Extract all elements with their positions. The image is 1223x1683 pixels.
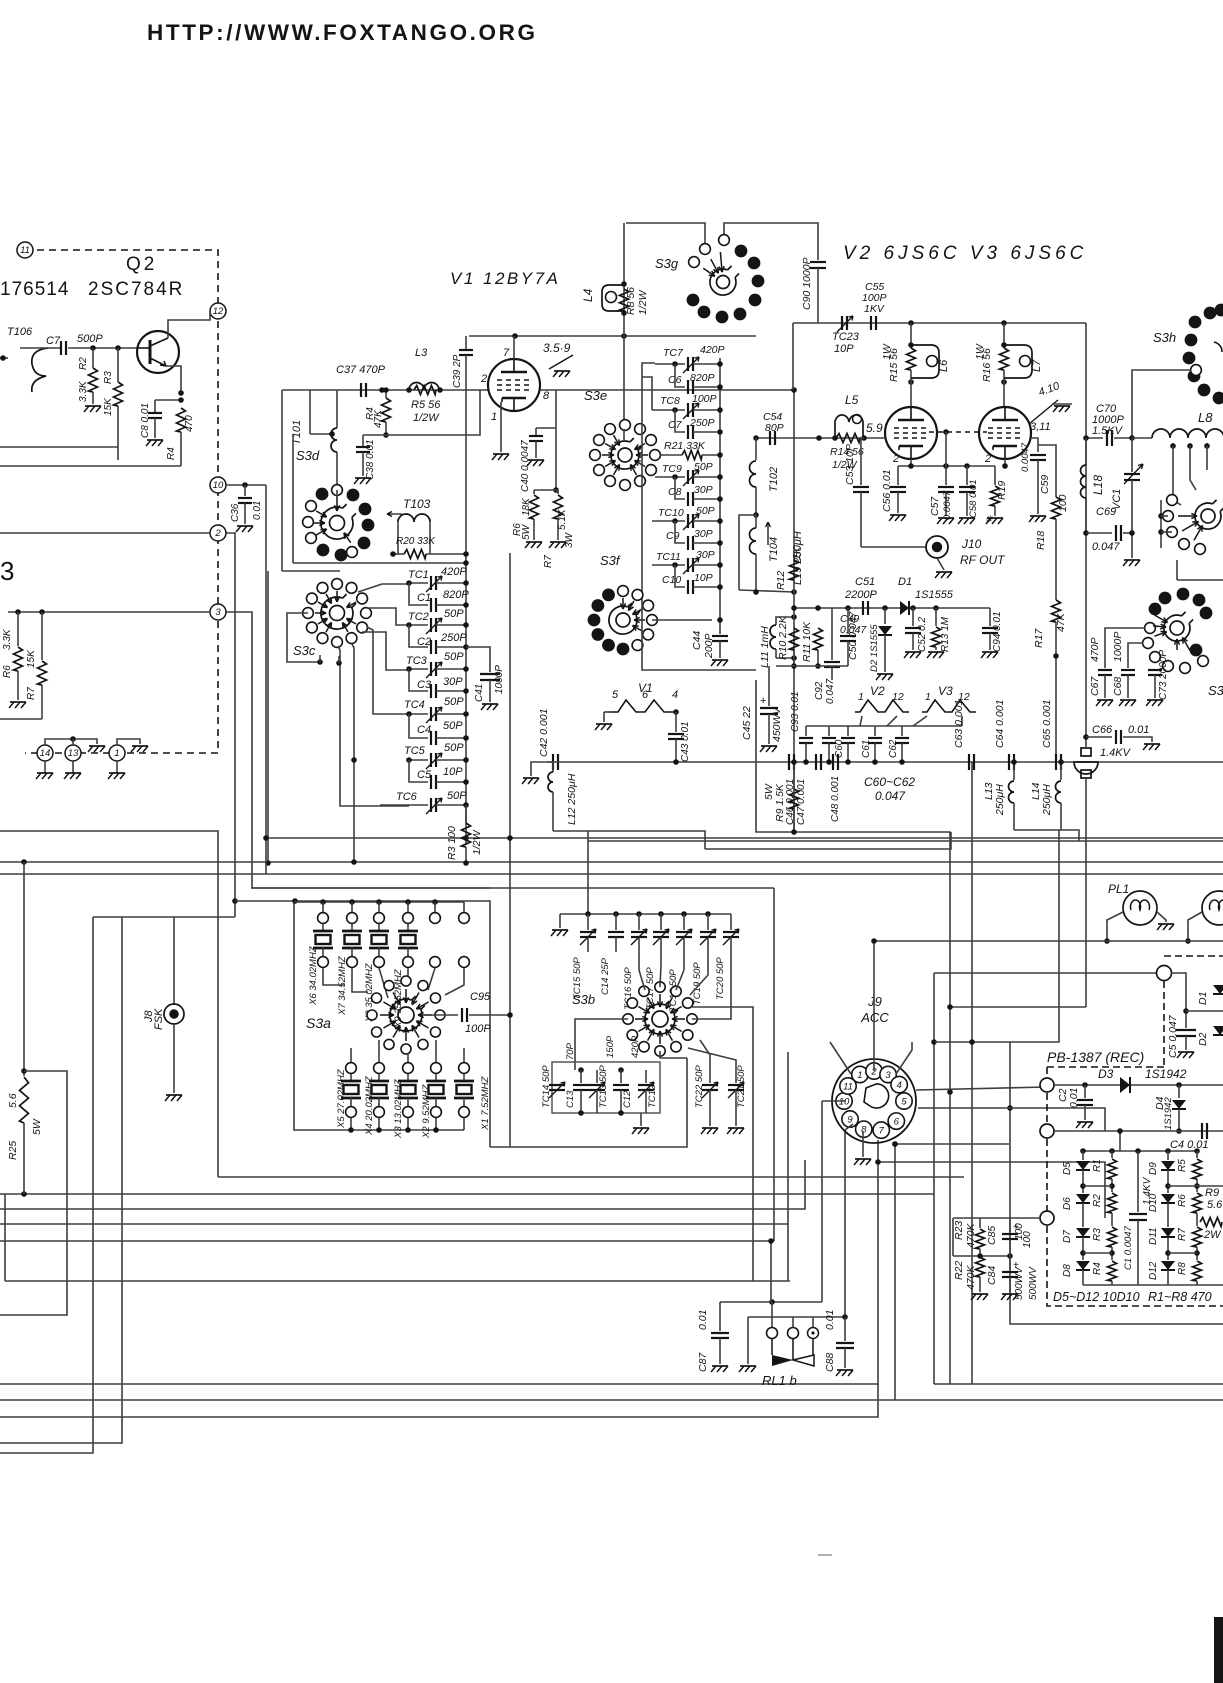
svg-text:ACC: ACC <box>860 1010 889 1025</box>
wire vertical x5 left edge <box>4 1194 6 1281</box>
svg-text:C62: C62 <box>888 739 899 758</box>
svg-text:HTTP://WWW.FOXTANGO.ORG: HTTP://WWW.FOXTANGO.ORG <box>147 20 538 45</box>
wire S3d wiper up <box>336 490 338 497</box>
svg-text:TC10: TC10 <box>658 507 684 519</box>
svg-text:R9: R9 <box>1205 1187 1219 1199</box>
wire S3f to C44 <box>652 619 712 621</box>
svg-text:R8: R8 <box>1177 1262 1188 1275</box>
variable capacitor VC1 <box>1131 438 1133 472</box>
wire y571 stub <box>282 570 340 572</box>
terminal 3 <box>210 604 226 620</box>
svg-text:50P: 50P <box>444 696 464 708</box>
capacitor C5 0.047 <box>1176 1029 1196 1031</box>
diode ladder bottom rail <box>1083 1284 1223 1286</box>
transformer T104 <box>753 512 759 518</box>
svg-text:C47 0.001: C47 0.001 <box>796 779 807 825</box>
svg-text:R25: R25 <box>7 1141 19 1160</box>
svg-text:1S1942: 1S1942 <box>1163 1097 1174 1130</box>
svg-text:TC2: TC2 <box>408 611 429 623</box>
junction dot x819 y438 <box>816 435 822 441</box>
series cap C48 0.001 <box>832 754 834 770</box>
junction dot x556 y490 <box>553 487 559 493</box>
junction dot x874 y941 <box>871 938 877 944</box>
svg-text:3: 3 <box>0 556 14 586</box>
svg-text:420P: 420P <box>441 566 467 578</box>
junction dot relay A <box>769 1299 775 1305</box>
resistors R1-R4 string <box>1111 1151 1113 1158</box>
PB terminal 3 <box>1040 1211 1054 1225</box>
terminal 11 <box>17 242 33 258</box>
junction dot L3 left <box>406 387 412 393</box>
junction dots rail y608 <box>791 605 797 611</box>
resistor R20 33K <box>404 550 426 559</box>
link D5-D8 to R1-R4 <box>1083 1185 1112 1187</box>
wire C53 to J10 <box>861 546 926 548</box>
svg-text:C52 0.2: C52 0.2 <box>917 617 928 652</box>
capacitor C84 100 500WV <box>1009 1256 1011 1270</box>
svg-text:10P: 10P <box>694 572 713 584</box>
svg-text:C5: C5 <box>417 769 432 781</box>
resistor R7 5.1K 3W <box>556 489 558 491</box>
capacitor C61 <box>874 726 876 736</box>
wire bus y1400 <box>0 1399 1223 1401</box>
junction dot x1086 y737 <box>1083 734 1089 740</box>
svg-text:C50 0.047: C50 0.047 <box>847 610 859 660</box>
svg-text:5W: 5W <box>31 1118 43 1135</box>
capacitor C90 1000P <box>810 261 826 263</box>
svg-text:4: 4 <box>897 1080 902 1091</box>
wire bus y1384 <box>0 1140 878 1384</box>
junction dot C5 node <box>1183 1008 1189 1014</box>
wire bus y1417 <box>0 1384 878 1417</box>
wire vertical x972 <box>971 762 973 1384</box>
svg-text:10P: 10P <box>834 343 854 355</box>
svg-text:470K: 470K <box>965 1264 977 1290</box>
svg-text:2: 2 <box>892 453 899 465</box>
crystal X6 34.02MHZ <box>320 899 326 905</box>
wire y973 to PB upper terminal <box>934 972 1157 974</box>
transformer T101 <box>331 428 337 452</box>
svg-text:S3g: S3g <box>655 256 679 271</box>
rotary switch S3f <box>616 613 630 627</box>
lamp PL2 partial <box>1202 891 1223 925</box>
resistor R16 56 1W with L7 <box>1003 323 1005 348</box>
wire vertical x266 from C36 node <box>265 485 267 874</box>
wire R4 junction right <box>386 390 480 435</box>
terminal 14 <box>37 745 53 761</box>
junction dot y612 b <box>39 609 45 615</box>
wire top entry to lower deck <box>1177 579 1223 581</box>
trimmer TC17 50P <box>658 911 664 917</box>
svg-text:C60~C62: C60~C62 <box>864 775 915 789</box>
transformer T103 coil <box>398 514 430 522</box>
rotary switch S3a <box>398 1007 414 1023</box>
terminal 2 <box>210 525 226 541</box>
transistor Q2 <box>137 331 179 373</box>
svg-text:470P: 470P <box>1089 637 1101 662</box>
svg-text:D3: D3 <box>1098 1067 1114 1081</box>
svg-text:R11 10K: R11 10K <box>801 621 813 662</box>
wire y1144 from J9 <box>895 1143 1009 1145</box>
wire R20 row <box>393 553 404 555</box>
capacitor C49 0.047 <box>831 608 833 660</box>
junction dot x354 y862 <box>351 859 357 865</box>
J9 ground pin8 <box>862 1131 864 1157</box>
wire bus y841 <box>588 840 1223 842</box>
heater stub V3 pin12 <box>961 716 963 726</box>
svg-text:2W: 2W <box>1203 1229 1222 1241</box>
wire vertical x774 long <box>773 888 775 1241</box>
resistor R11 10K <box>814 628 823 650</box>
svg-text:R3: R3 <box>103 371 114 384</box>
svg-text:C4: C4 <box>417 724 431 736</box>
junction dot x24 y862 <box>21 859 27 865</box>
wire from circled2 down x235 <box>218 533 235 917</box>
wire T101 tap <box>310 433 332 435</box>
svg-text:5.9: 5.9 <box>866 421 883 435</box>
wire bus y1384 right segment <box>934 1383 1223 1385</box>
capacitor C95 100P <box>422 1014 458 1016</box>
lower group ground <box>640 1113 642 1126</box>
ground under terminal 1 <box>116 761 118 773</box>
S3g top wire left <box>626 223 705 245</box>
transformer T106 coil <box>32 348 48 392</box>
junction dot x624 y284 <box>621 281 627 287</box>
svg-text:C87: C87 <box>697 1352 709 1372</box>
S3c arrows <box>347 619 357 625</box>
svg-text:80P: 80P <box>765 422 784 434</box>
svg-text:R23: R23 <box>953 1221 965 1240</box>
junction dot x895 y1144 <box>892 1141 898 1147</box>
junction dot plate bus x1004 <box>1001 320 1007 326</box>
T104 dashed arrow <box>766 522 771 545</box>
tube V3 6JS6C <box>979 407 1031 459</box>
svg-text:L8: L8 <box>1198 410 1213 425</box>
junction dot x972 y1042 <box>969 1039 975 1045</box>
junction dot C36 <box>242 482 248 488</box>
wire deck to lower area <box>1176 560 1178 580</box>
svg-text:S3a: S3a <box>306 1015 331 1031</box>
junction dot S3c foot b <box>336 660 342 666</box>
junction dot base node <box>90 345 96 351</box>
svg-text:1: 1 <box>858 691 864 703</box>
svg-text:5.6: 5.6 <box>1207 1199 1223 1211</box>
svg-text:X3 13.02MHZ: X3 13.02MHZ <box>393 1078 404 1139</box>
diodes D9-D12 string <box>1167 1151 1169 1160</box>
terminal 13 <box>65 745 81 761</box>
svg-text:X4 20.02MHZ: X4 20.02MHZ <box>364 1075 375 1136</box>
S3c capacitor ladder rail <box>465 570 467 845</box>
capacitor C67 470P <box>1105 628 1145 668</box>
trimmer TC14 50P <box>549 1084 565 1086</box>
capacitor C7 <box>20 347 61 349</box>
capacitor C2 0.01 <box>1084 1085 1086 1098</box>
wire y438 T102 top <box>756 437 794 439</box>
svg-text:C43 0.01: C43 0.01 <box>680 721 691 762</box>
svg-text:S3e: S3e <box>584 388 607 403</box>
C42 ground stub <box>531 762 553 776</box>
svg-text:100: 100 <box>1057 494 1069 512</box>
S3a box <box>294 902 462 1130</box>
svg-text:V2: V2 <box>870 684 885 698</box>
svg-text:TC21 50P: TC21 50P <box>736 1065 747 1108</box>
svg-text:200P: 200P <box>703 633 715 659</box>
capacitor C37 470P <box>360 383 362 397</box>
wire S3c to ladder TC5 <box>352 644 354 760</box>
wire V1 pin8 to C40 <box>555 390 557 490</box>
capacitor C62 <box>901 726 903 736</box>
svg-text:12: 12 <box>213 306 224 317</box>
rotary S3 lower right cluster <box>1149 603 1162 616</box>
R22 R23 junction rail <box>953 1255 1010 1257</box>
resistor R19 <box>994 466 996 485</box>
svg-text:11: 11 <box>843 1082 853 1093</box>
svg-text:C57: C57 <box>929 496 941 516</box>
terminal3 wire left <box>953 1217 1040 1219</box>
junction dot x266 y838 <box>263 835 269 841</box>
tube V2 6JS6C <box>885 407 937 459</box>
svg-text:R7: R7 <box>1177 1228 1188 1241</box>
svg-text:1: 1 <box>491 411 497 423</box>
stray mark <box>818 1554 832 1556</box>
svg-text:X6 34.02MHZ: X6 34.02MHZ <box>308 945 319 1006</box>
wire L12 row y831 <box>553 831 705 849</box>
junction dot plate bus x624 <box>621 333 627 339</box>
wire bus y1209 <box>0 1160 805 1209</box>
wire S3a lower bus to box <box>462 1129 464 1131</box>
svg-text:C73 2000P: C73 2000P <box>1158 650 1169 700</box>
grid wire y438 from L5 <box>794 437 885 439</box>
series cap C64 0.001 <box>1008 754 1010 770</box>
wire R7 corner <box>0 718 42 720</box>
svg-text:TC1: TC1 <box>408 569 429 581</box>
svg-text:D2: D2 <box>1197 1032 1209 1046</box>
diode D4 1S1942 <box>1178 1085 1180 1098</box>
svg-text:6: 6 <box>642 689 649 701</box>
diode D3 1S1942 <box>1120 1077 1130 1093</box>
wire terminal3 line y612 <box>8 611 210 613</box>
wire plate bus y336 <box>469 335 756 337</box>
svg-text:0.01: 0.01 <box>824 1310 836 1330</box>
resistor R18 100 <box>1038 445 1056 497</box>
wire x953 terminal3 <box>952 1218 954 1256</box>
rotary switch S3e <box>618 448 632 462</box>
svg-text:C64 0.001: C64 0.001 <box>994 700 1006 748</box>
svg-text:1/2W: 1/2W <box>471 829 483 855</box>
wire vertical x950 PB feeder <box>949 1092 951 1384</box>
capacitor C55 100P 1KV <box>870 316 872 330</box>
svg-text:420P: 420P <box>630 1035 641 1058</box>
capacitor C43 0.01 <box>673 709 679 715</box>
svg-text:250μH: 250μH <box>1041 784 1053 816</box>
svg-text:T106: T106 <box>7 326 33 338</box>
inductor L11 1mH <box>776 617 794 625</box>
svg-text:R1: R1 <box>1092 1159 1103 1172</box>
inductor L18 <box>1085 438 1087 465</box>
bottom rail y666 <box>776 665 848 667</box>
wire vertical x822 <box>821 1179 823 1302</box>
vertical wire x466 down to S3c rail <box>465 390 467 570</box>
capacitor C4 0.01 <box>1201 1123 1203 1139</box>
svg-text:R3 100: R3 100 <box>446 826 458 860</box>
svg-text:7: 7 <box>879 1126 885 1137</box>
trimmer TC21 50P <box>688 1048 736 1083</box>
svg-text:+: + <box>760 695 766 707</box>
wire S3b left contact <box>575 1019 628 1070</box>
capacitor C52 0.2 <box>912 608 914 626</box>
capacitor C12 150P <box>618 1067 624 1073</box>
TC15 bus ground <box>559 914 561 928</box>
svg-text:C14 25P: C14 25P <box>600 957 611 995</box>
svg-text:3: 3 <box>885 1070 891 1081</box>
resistor R4 470 <box>177 408 186 432</box>
PL1 leads <box>1107 912 1123 941</box>
svg-text:450WV: 450WV <box>771 707 783 742</box>
svg-text:C44: C44 <box>691 631 703 650</box>
svg-text:10: 10 <box>839 1097 850 1108</box>
svg-text:※: ※ <box>985 514 993 524</box>
wire S3b bottom contact <box>660 1051 687 1058</box>
svg-text:3.3K: 3.3K <box>78 380 89 402</box>
wire vertical x895 <box>894 1144 896 1400</box>
svg-text:10P: 10P <box>443 766 463 778</box>
lamp PL1 <box>1123 891 1157 925</box>
diode D2 1S1555 <box>884 608 886 624</box>
svg-text:T103: T103 <box>403 497 431 511</box>
svg-text:70P: 70P <box>565 1042 576 1060</box>
svg-text:C93 0.01: C93 0.01 <box>790 691 801 732</box>
svg-text:C40 0.0047: C40 0.0047 <box>520 440 531 492</box>
resistor R14 56 1/2W <box>836 434 860 443</box>
svg-text:V2 6JS6C V3 6JS6C: V2 6JS6C V3 6JS6C <box>843 243 1087 264</box>
svg-text:1: 1 <box>925 691 931 703</box>
wire from circled3 down x252 <box>218 612 252 888</box>
svg-text:1W: 1W <box>881 343 893 360</box>
svg-text:0.047: 0.047 <box>825 679 836 704</box>
resistor R6 3.3K left <box>17 612 19 646</box>
svg-text:X1 7.52MHZ: X1 7.52MHZ <box>480 1075 491 1131</box>
svg-text:D1: D1 <box>898 576 912 588</box>
wire bus y888 <box>252 887 774 889</box>
S3f box bottom <box>642 600 756 670</box>
svg-text:0.01: 0.01 <box>1068 1088 1080 1108</box>
capacitor C39 2P <box>465 336 467 349</box>
svg-text:50P: 50P <box>447 790 467 802</box>
svg-text:C58 0.01: C58 0.01 <box>968 479 979 518</box>
wire bus y1177 <box>218 1176 964 1178</box>
crystal X3 13.02MHZ <box>403 1063 414 1074</box>
crystal X7 34.52MHZ <box>349 899 355 905</box>
S3c contacts ring <box>361 608 372 619</box>
S3e contacts ring <box>650 450 661 461</box>
S3e ladder rail right <box>719 358 721 620</box>
svg-text:15K: 15K <box>103 397 114 416</box>
wire S3c left contacts loop <box>287 613 320 662</box>
capacitor C40 0.0047 <box>536 427 556 429</box>
S3g contacts <box>700 244 711 255</box>
junction dot y1194 x24 <box>21 1191 27 1197</box>
svg-text:1W: 1W <box>974 343 986 360</box>
svg-text:D6: D6 <box>1062 1197 1073 1210</box>
resistor R3 100 1/2W <box>465 805 467 822</box>
V1 heater zigzag <box>610 700 676 712</box>
relay contact b <box>792 1317 794 1327</box>
svg-text:C10: C10 <box>662 574 681 586</box>
rotary S3h contacts <box>1189 316 1202 329</box>
crystal X5 27.02MHZ <box>346 1063 357 1074</box>
junction dot relay B right <box>842 1314 848 1320</box>
svg-text:X2 9.52MHZ: X2 9.52MHZ <box>421 1083 432 1139</box>
trimmer TC23 10P <box>841 316 843 330</box>
capacitor C42 0.001 <box>552 754 554 770</box>
connector J8 FSK <box>173 917 175 1005</box>
svg-text:1KV: 1KV <box>864 303 885 315</box>
wire S3h to C70 node <box>1132 370 1191 438</box>
svg-text:R7: R7 <box>26 687 37 700</box>
svg-text:C65 0.001: C65 0.001 <box>1041 700 1053 748</box>
ground relay B left <box>747 1317 749 1364</box>
wire vertical x845 <box>844 1130 846 1317</box>
svg-text:R19: R19 <box>996 481 1008 500</box>
wire Q2 area y466 <box>0 465 181 467</box>
junction dot x354 y760 <box>351 757 357 763</box>
PB upper terminal circle <box>1157 966 1172 981</box>
svg-text:18K: 18K <box>521 497 532 516</box>
svg-text:C13: C13 <box>565 1090 576 1108</box>
svg-text:0.0047: 0.0047 <box>1020 442 1031 472</box>
svg-text:T104: T104 <box>768 537 780 562</box>
inductor L6 <box>911 345 939 378</box>
svg-text:11: 11 <box>20 245 30 256</box>
svg-text:50P: 50P <box>444 651 464 663</box>
svg-text:1/2W: 1/2W <box>637 289 649 315</box>
svg-text:R5: R5 <box>1177 1159 1188 1172</box>
resistors R5-R8 string <box>1196 1151 1198 1158</box>
svg-text:176514: 176514 <box>0 279 69 300</box>
wire S3c to ladder TC2 <box>366 608 409 625</box>
wire y849 segment <box>705 832 951 849</box>
vertical wire x624 S3g to S3e <box>623 223 625 429</box>
resistor R13 1M <box>935 608 937 626</box>
svg-text:30P: 30P <box>694 528 713 540</box>
svg-text:1S1942: 1S1942 <box>1145 1067 1187 1081</box>
capacitor C36 0.01 <box>244 485 246 496</box>
resistor R7 15K left <box>41 612 43 660</box>
inductor L13 250uH <box>1013 762 1015 780</box>
svg-text:0.047: 0.047 <box>875 789 906 803</box>
svg-text:C38 0.01: C38 0.01 <box>365 439 376 480</box>
capacitor C93 0.01 <box>805 726 807 736</box>
junction dot x624 y313 <box>621 310 627 316</box>
svg-text:470K: 470K <box>965 1222 977 1248</box>
svg-text:R6: R6 <box>1177 1194 1188 1207</box>
svg-text:C5 0.047: C5 0.047 <box>1167 1014 1179 1058</box>
S3e ladder to S3f wires <box>642 377 652 410</box>
terminal 1 <box>109 745 125 761</box>
wire y590 T104 bottom <box>739 590 794 592</box>
junction dot y612 a <box>15 609 21 615</box>
series cap C65 0.001 <box>1055 754 1057 770</box>
wire vertical x1010 PB feeder <box>1009 1042 1011 1256</box>
ground under terminal 14 <box>44 761 46 773</box>
svg-text:0.0047: 0.0047 <box>942 490 953 520</box>
diode D2 right edge <box>1213 1026 1223 1035</box>
svg-text:10: 10 <box>213 480 224 491</box>
resistor R9 1.5K 5W <box>793 762 795 788</box>
svg-text:5.6: 5.6 <box>7 1093 19 1108</box>
wire bus y1224 <box>0 1223 788 1225</box>
S3d arrows <box>336 496 338 511</box>
